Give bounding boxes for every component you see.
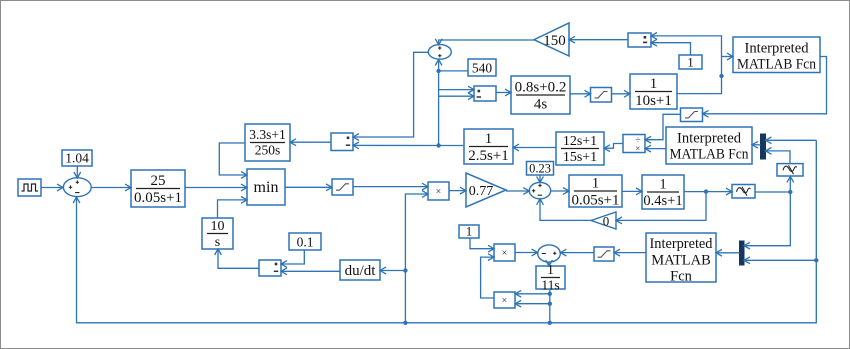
wire branch to X494b input1	[515, 293, 550, 295]
wire S1 to 25 block	[91, 187, 131, 189]
svg-text:du/dt: du/dt	[345, 263, 377, 279]
svg-text:1.04: 1.04	[65, 151, 89, 166]
interpreted MATLAB fcn U2	[666, 127, 752, 164]
mux bar M1	[761, 134, 766, 159]
svg-text:Fcn: Fcn	[670, 269, 693, 285]
svg-text:Interpreted: Interpreted	[650, 236, 714, 252]
wire 1/(10s+1) up to D628	[651, 36, 722, 94]
svg-text:×: ×	[502, 296, 508, 307]
wire to M2 bottom input	[744, 259, 816, 261]
sum junction S2	[529, 182, 550, 198]
divide block D622	[623, 135, 645, 153]
wire branch to gain 0	[616, 192, 706, 221]
transfer fcn (0.8s+0.2)/4s	[511, 76, 570, 114]
svg-text:0.8s+0.2: 0.8s+0.2	[515, 80, 567, 96]
wire gain 0 to S2 bottom	[540, 199, 591, 221]
wire S332 to X428	[353, 186, 428, 188]
signal block W732	[732, 185, 755, 199]
wire 0.23 to S2	[539, 175, 541, 182]
wire 0.77 to S2	[506, 190, 529, 192]
wire S0 output to A331 top	[353, 52, 428, 137]
wire 1.04 to S1	[76, 166, 78, 178]
min block	[247, 169, 285, 205]
svg-text:0.1: 0.1	[297, 235, 314, 250]
wire 10/s to min input3	[218, 200, 248, 218]
svg-text:10s+1: 10s+1	[635, 93, 672, 109]
wire W732 to junction and M2	[744, 192, 790, 246]
wire min to S332	[285, 186, 332, 188]
interpreted MATLAB fcn U1	[733, 37, 820, 73]
svg-text:10: 10	[211, 219, 225, 234]
svg-text:MATLAB Fcn: MATLAB Fcn	[737, 57, 817, 73]
svg-text:3.3s+1: 3.3s+1	[249, 127, 286, 142]
saturation S332	[332, 179, 353, 195]
gain 0 feedback	[591, 212, 616, 229]
wire branch to X494b input2	[515, 303, 550, 305]
wire X494a to S3	[515, 252, 538, 254]
svg-text:×: ×	[635, 144, 640, 154]
svg-text:15s+1: 15s+1	[563, 150, 597, 165]
svg-text:1: 1	[592, 176, 600, 192]
wire A259 to 10/s	[218, 249, 259, 268]
integrator 1/11s	[536, 266, 565, 289]
wire X428 to gain 0.77	[449, 190, 466, 192]
wire 3.3s block to min input1	[219, 143, 247, 175]
transfer fcn (3.3s+1)/250s	[245, 124, 290, 161]
transfer fcn (12s+1)/(15s+1)	[556, 132, 604, 165]
svg-text:250s: 250s	[255, 143, 281, 158]
wire S3 to 1/11s	[548, 262, 550, 266]
wire S594 to S3	[560, 252, 594, 254]
wire S680 to D622 top input	[645, 114, 681, 139]
gain 150	[534, 23, 569, 56]
svg-text:1: 1	[659, 177, 666, 193]
add block A331	[331, 133, 353, 151]
sum junction S3	[538, 245, 561, 262]
svg-text:MATLAB: MATLAB	[651, 253, 711, 269]
product X494b	[494, 292, 515, 308]
wire junction to 540	[439, 70, 468, 72]
transfer fcn 1/(10s+1)	[630, 74, 677, 109]
wire 1/11s down to rail	[549, 289, 551, 323]
transfer fcn 1/(2.5s+1)	[464, 129, 513, 164]
svg-text:Interpreted: Interpreted	[677, 131, 742, 147]
wire 1/(0.4s+1) to W732	[684, 191, 732, 193]
wire A331 to 3.3s block	[290, 141, 331, 143]
wire branch to U1 input	[722, 56, 734, 58]
wire const 1 to D628	[651, 43, 691, 55]
saturation S594	[594, 247, 614, 261]
product X428	[428, 182, 449, 200]
svg-text:0.05s+1: 0.05s+1	[134, 190, 182, 206]
product X494a	[494, 244, 515, 261]
svg-text:min: min	[254, 179, 279, 196]
gain 0.77	[466, 173, 506, 207]
wire feedback to du/dt	[380, 270, 405, 272]
wire 25 block to min	[185, 187, 247, 189]
wire feedback to M1 top input	[766, 139, 817, 141]
wire pulse to S1	[41, 187, 63, 189]
wire A474 to 0.8s block	[496, 92, 511, 94]
wire X494b to X494a	[481, 257, 494, 298]
svg-text:0: 0	[603, 214, 610, 229]
main feedback rail	[77, 140, 817, 322]
svg-text:1: 1	[687, 55, 694, 70]
pulse generator source	[18, 179, 41, 196]
constant 540	[468, 59, 496, 76]
sum junction S0	[428, 45, 451, 60]
svg-text:2.5s+1: 2.5s+1	[468, 148, 509, 164]
wire 0.8s block to S591	[570, 93, 591, 95]
interpreted MATLAB fcn U3	[646, 233, 716, 282]
svg-text:0.77: 0.77	[469, 184, 494, 199]
constant 1 top	[679, 55, 702, 69]
wire to A474 input1	[439, 89, 474, 91]
wire M2 to U3	[716, 252, 740, 254]
svg-text:12s+1: 12s+1	[563, 134, 597, 149]
sum junction S1	[63, 178, 91, 197]
wire junction up to W777	[789, 176, 791, 192]
wire S2 to 1/(0.05s+1)	[551, 190, 569, 192]
svg-text:×: ×	[502, 248, 508, 259]
wire const 1 to X494a	[470, 238, 494, 249]
svg-text:MATLAB Fcn: MATLAB Fcn	[670, 147, 750, 163]
svg-text:11s: 11s	[541, 278, 559, 293]
wire S591 to 1/(10s+1)	[612, 93, 631, 95]
transfer fcn 25/(0.05s+1)	[131, 170, 185, 207]
add block A474	[474, 86, 496, 101]
wire U1 to S680	[703, 57, 827, 114]
wire 1/(0.05s+1) to 1/(0.4s+1)	[622, 190, 642, 192]
svg-text:1: 1	[485, 131, 493, 147]
transfer fcn 1/(0.05s+1)	[569, 175, 622, 207]
wire feedback riser to X428	[405, 194, 428, 323]
wire 0.1 to A259	[281, 250, 304, 264]
svg-text:Interpreted: Interpreted	[745, 41, 810, 57]
svg-text:s: s	[215, 235, 220, 250]
svg-text:0.23: 0.23	[529, 162, 551, 176]
signal block W777	[777, 164, 803, 176]
svg-text:0.4s+1: 0.4s+1	[643, 193, 682, 209]
svg-text:540: 540	[472, 61, 493, 76]
integrator 10/s	[202, 218, 233, 249]
wire U2 to D622	[645, 148, 666, 150]
wire W777 to M1 lower input	[766, 151, 791, 164]
wire gain 150 to S0 top	[439, 40, 534, 45]
constant 1 bottom	[459, 225, 479, 238]
constant 0.1	[289, 233, 321, 250]
svg-text:150: 150	[543, 33, 566, 49]
wire du/dt to A259	[281, 270, 340, 272]
wire D622 to 12s+1 block	[604, 144, 623, 149]
wire 12s+1 to 1/(2.5s+1)	[513, 147, 556, 149]
wire 1/(2.5s+1) to A331	[353, 144, 464, 146]
wire M1 to U2	[752, 144, 761, 146]
wire D628 to gain 150	[569, 39, 628, 41]
add block A259	[259, 260, 281, 276]
svg-text:4s: 4s	[534, 97, 548, 113]
saturation S680	[681, 108, 703, 122]
mux bar M2	[740, 241, 745, 265]
svg-text:×: ×	[436, 187, 442, 198]
wire to A474 input2	[439, 95, 474, 97]
svg-text:0.05s+1: 0.05s+1	[571, 193, 619, 209]
svg-text:25: 25	[151, 173, 166, 189]
derivative du/dt	[340, 260, 380, 280]
svg-text:1: 1	[650, 76, 658, 92]
wire riser to S0 bottom	[438, 60, 440, 146]
wire U3 to S594	[614, 252, 646, 254]
transfer fcn 1/(0.4s+1)	[642, 175, 684, 209]
divide block D628	[628, 33, 651, 47]
constant 0.23	[527, 162, 554, 176]
saturation S591	[591, 88, 612, 103]
svg-text:1: 1	[466, 225, 472, 239]
constant 1.04	[62, 150, 92, 166]
